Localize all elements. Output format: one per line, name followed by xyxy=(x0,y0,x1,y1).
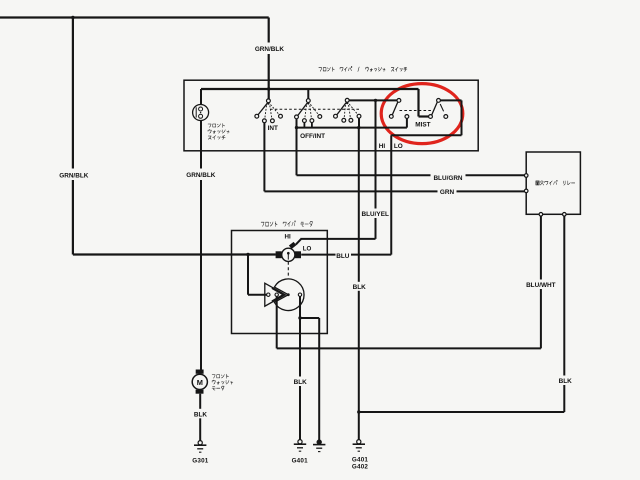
wire motor shaft dashed link xyxy=(287,262,289,278)
svg-text:BLU/GRN: BLU/GRN xyxy=(433,175,462,182)
label GRN xyxy=(438,187,457,196)
wire bus horizontal xyxy=(201,88,419,90)
wire MIST-right output LO xyxy=(301,100,461,254)
svg-text:HI: HI xyxy=(379,143,386,150)
node junction park ground xyxy=(298,316,301,319)
wire top horizontal feed xyxy=(0,16,269,18)
switch INT contacts xyxy=(255,99,283,123)
switch HI-LO selector contacts xyxy=(334,98,361,122)
ground G301 xyxy=(194,441,206,453)
label BLU xyxy=(336,251,352,260)
terminal relay bottom-2 xyxy=(563,213,567,217)
svg-text:M: M xyxy=(197,378,203,387)
motor M2 washer xyxy=(192,370,207,394)
wire contact bus y128 xyxy=(297,118,407,127)
label BLK relay xyxy=(557,376,573,386)
label switch box title xyxy=(319,66,407,71)
wire washer switch top xyxy=(200,89,202,105)
switch box xyxy=(184,80,478,151)
wire GRN/BLK vertical to switch xyxy=(268,18,270,100)
svg-text:G401: G401 xyxy=(292,458,309,465)
svg-text:BLU/WHT: BLU/WHT xyxy=(526,282,556,289)
label MIST xyxy=(415,122,430,129)
wire HI vertical BLU/YEL xyxy=(375,100,377,239)
wire HI horizontal into motor xyxy=(296,239,376,245)
svg-text:BLK: BLK xyxy=(294,379,308,386)
label LO xyxy=(394,143,403,150)
svg-text:OFF/INT: OFF/INT xyxy=(300,133,325,140)
label HI motor xyxy=(285,233,291,240)
svg-text:INT: INT xyxy=(268,125,278,132)
label washer motor name xyxy=(212,374,233,390)
wire left GRN/BLK vertical xyxy=(72,18,74,255)
terminal relay left-2 xyxy=(524,189,528,193)
node junction HI takeoff xyxy=(374,99,377,102)
wire park to relay xyxy=(276,296,278,348)
switch MIST-right contacts xyxy=(429,99,448,119)
label BLK mid xyxy=(352,282,367,291)
label GRN/BLK left xyxy=(58,169,89,181)
label OFF/INT xyxy=(300,133,325,140)
wire MIST mechanical dashed xyxy=(400,110,434,112)
svg-text:BLU/YEL: BLU/YEL xyxy=(362,211,389,218)
svg-text:GRN/BLK: GRN/BLK xyxy=(59,172,88,179)
wire mechanical dashed link xyxy=(270,108,359,110)
svg-text:G301: G301 xyxy=(192,458,209,465)
wire selector top link xyxy=(349,99,397,101)
node junction LO inside xyxy=(246,253,249,256)
ground G401 left xyxy=(294,440,306,452)
switch MIST-left contacts xyxy=(389,99,408,119)
wire BLK vertical xyxy=(358,128,360,441)
relay box xyxy=(526,152,580,214)
svg-text:GRN/BLK: GRN/BLK xyxy=(255,46,284,53)
wire washer motor to ground xyxy=(199,394,201,441)
wire park to ground xyxy=(299,296,301,440)
terminal relay bottom-1 xyxy=(539,213,543,217)
wire park ground branch xyxy=(300,318,319,440)
label washer switch name xyxy=(208,123,229,139)
label HI xyxy=(379,143,386,150)
terminal relay left-1 xyxy=(524,174,528,178)
wire relay BLU/WHT output xyxy=(277,216,541,348)
switch SW-washer front washer switch xyxy=(193,105,209,121)
label INT xyxy=(268,125,278,132)
wire relay BLK output xyxy=(359,216,565,412)
label G301 xyxy=(192,458,209,465)
svg-text:BLU: BLU xyxy=(336,253,350,260)
label LO motor xyxy=(303,246,312,253)
svg-text:BLK: BLK xyxy=(559,378,573,385)
wire selector right contact drop xyxy=(358,118,360,128)
node junction top-left xyxy=(71,16,74,19)
label wiper motor title xyxy=(261,221,312,227)
switch OFF-INT contacts xyxy=(295,99,322,123)
ground splice dot xyxy=(313,440,325,452)
switch park cam xyxy=(265,279,304,311)
label relay name xyxy=(536,180,575,185)
label G401 left xyxy=(292,458,309,465)
wire bus drop to MIST xyxy=(419,89,430,117)
wiper motor box xyxy=(232,231,328,334)
label GRN/BLK washer xyxy=(186,169,216,181)
label BLU/WHT xyxy=(525,280,556,290)
svg-text:LO: LO xyxy=(303,246,312,253)
wire washer switch to motor xyxy=(200,120,202,369)
node junction BLK top xyxy=(357,126,360,129)
label BLK washer xyxy=(192,409,209,419)
label BLK park xyxy=(293,377,309,387)
svg-text:GRN/BLK: GRN/BLK xyxy=(186,172,215,179)
label G401 G402 xyxy=(352,457,369,471)
wire park feed xyxy=(248,255,267,295)
highlight ellipse MIST xyxy=(381,84,463,144)
label BLU/GRN xyxy=(431,172,466,182)
svg-text:MIST: MIST xyxy=(415,122,430,129)
motor M1 wiper armature xyxy=(276,242,301,262)
wire LO feed horizontal to motor xyxy=(73,253,276,255)
svg-text:LO: LO xyxy=(394,143,403,150)
svg-text:BLK: BLK xyxy=(353,284,367,291)
node junction OFF/INT bottom xyxy=(295,126,298,129)
wire OFF/INT moving output BLU/GRN xyxy=(297,119,525,176)
node bus junction GRN/BLK xyxy=(267,87,270,90)
node junction BLK ground xyxy=(357,410,360,413)
svg-text:BLK: BLK xyxy=(194,412,208,419)
ground G401 G402 xyxy=(353,440,365,452)
wire INT output GRN xyxy=(264,123,524,192)
wire OFF/INT top xyxy=(307,89,309,99)
label GRN/BLK top xyxy=(253,43,285,55)
svg-text:G402: G402 xyxy=(352,463,369,470)
svg-text:HI: HI xyxy=(285,233,291,240)
svg-text:GRN: GRN xyxy=(440,189,455,196)
label BLU/YEL xyxy=(360,209,390,219)
